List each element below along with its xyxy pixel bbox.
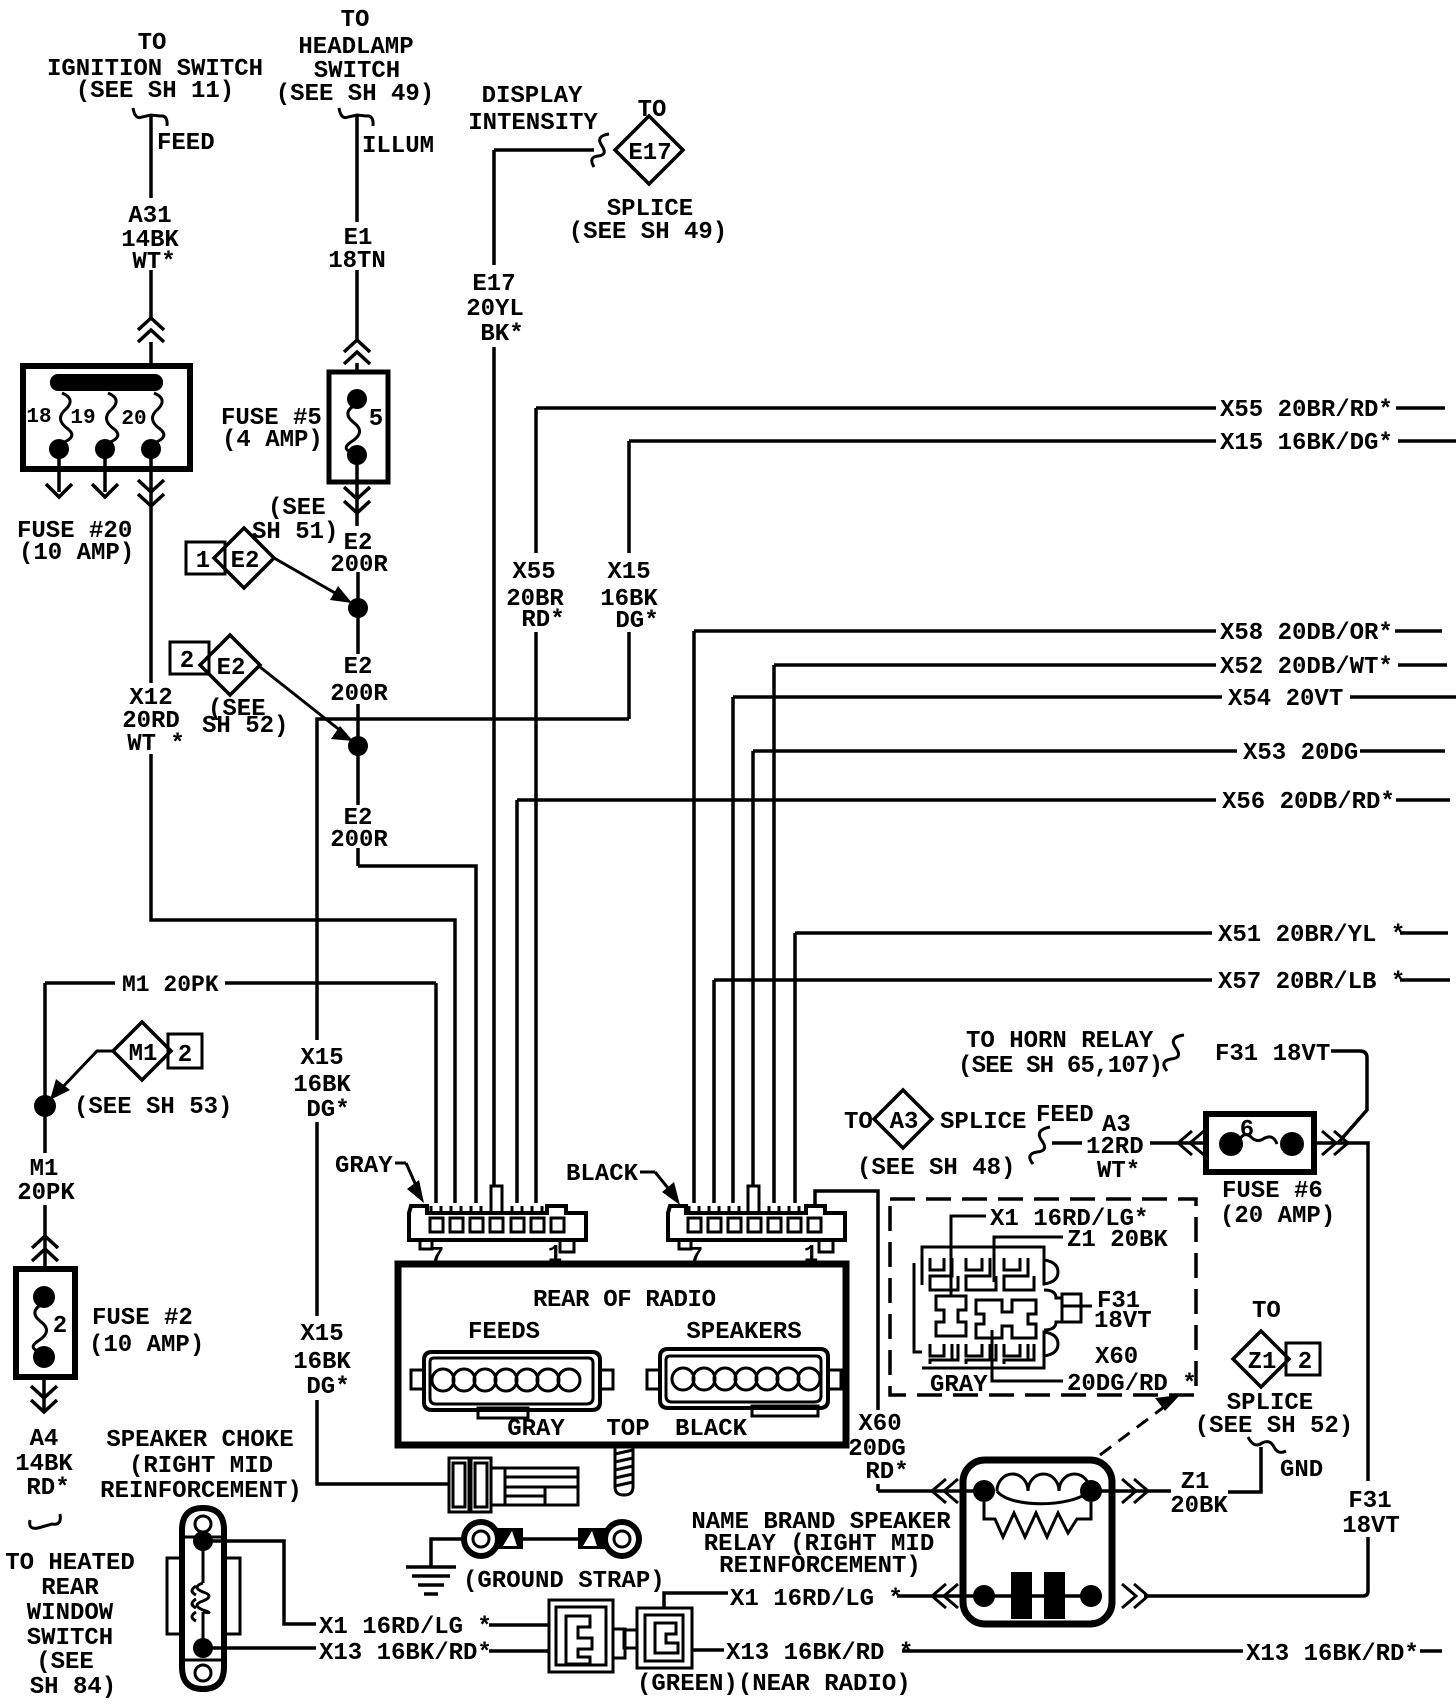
node X15 16BK DG* stack label <box>600 559 658 635</box>
connector black feet <box>679 1240 833 1252</box>
node splice symbol E17 diamond <box>615 97 683 184</box>
node Z1 20BK wire label <box>1170 1469 1228 1520</box>
wire X13 end dash <box>1420 1649 1442 1653</box>
wire X12 vertical and elbow to gray pin6 <box>151 754 455 1203</box>
wire X60 lead in box <box>992 1330 1063 1381</box>
wire X13 long horizontal <box>902 1649 1243 1653</box>
wire X60 into relay <box>878 1489 984 1493</box>
svg-text:TO: TO <box>844 1109 873 1136</box>
svg-text:E2: E2 <box>217 655 246 682</box>
svg-text:X57 20BR/LB *: X57 20BR/LB * <box>1218 969 1405 996</box>
svg-text:2: 2 <box>178 1042 192 1069</box>
svg-text:X52 20DB/WT*: X52 20DB/WT* <box>1220 654 1393 681</box>
wire choke bottom to X13 label <box>203 1646 316 1650</box>
node choke top terminal dot <box>193 1531 213 1551</box>
svg-text:20DG/RD *: 20DG/RD * <box>1067 1371 1197 1398</box>
svg-text:HEADLAMP: HEADLAMP <box>298 34 413 61</box>
svg-text:X60: X60 <box>1095 1344 1138 1371</box>
component mounting bolt <box>615 1448 633 1495</box>
wire black pin1 up elbow to X60 drop <box>815 1191 878 1491</box>
svg-text:X53 20DG: X53 20DG <box>1243 740 1358 767</box>
node: TO IGNITION SWITCH label <box>47 30 263 105</box>
wire arrow from E2 diamond1 to junction 1 <box>274 558 342 597</box>
svg-text:REAR OF RADIO: REAR OF RADIO <box>533 1287 716 1314</box>
svg-text:18VT: 18VT <box>1342 1513 1400 1540</box>
wire E2 elbow to gray pin5 <box>358 866 476 1203</box>
svg-text:RD*: RD* <box>521 607 564 634</box>
wire X1 lead in box <box>951 1216 986 1295</box>
node splice ref box M1-2 <box>168 1034 202 1069</box>
svg-text:M1: M1 <box>129 1041 158 1068</box>
wire E2 below fuse5 with down chevrons <box>344 462 370 526</box>
wire F31 from label to fuse6 right <box>1331 1051 1367 1143</box>
svg-text:2: 2 <box>1298 1349 1312 1376</box>
svg-text:Z1 20BK: Z1 20BK <box>1067 1227 1168 1254</box>
svg-text:F31 18VT: F31 18VT <box>1215 1041 1330 1068</box>
pin gray keyed pin4 marker <box>491 1186 502 1213</box>
fuse block bus bar <box>50 374 163 391</box>
connector green plug large <box>549 1600 625 1672</box>
node E17 20YL BK* label <box>466 271 524 348</box>
svg-text:E2: E2 <box>344 654 373 681</box>
svg-text:BK*: BK* <box>480 321 523 348</box>
wire X57 elbow <box>714 980 1450 1203</box>
svg-text:20BK: 20BK <box>1170 1493 1228 1520</box>
svg-text:X15: X15 <box>300 1045 343 1072</box>
svg-text:(SEE: (SEE <box>36 1649 94 1676</box>
svg-text:18: 18 <box>26 406 51 429</box>
wire break chevrons above fuse2 <box>32 1236 58 1261</box>
fuse block #20 outline <box>23 366 190 469</box>
svg-text:2: 2 <box>180 648 194 675</box>
svg-text:(SEE SH 65,107): (SEE SH 65,107) <box>958 1053 1163 1080</box>
fuse F6 outline <box>1206 1114 1314 1172</box>
connector GRAY radio plug body <box>409 1206 586 1240</box>
svg-text:WT*: WT* <box>1097 1158 1140 1185</box>
node X60 20DG RD* stack label <box>848 1411 908 1486</box>
wire Z1 lead in box <box>994 1237 1063 1282</box>
svg-text:M1: M1 <box>30 1156 59 1183</box>
node relay contact right dot <box>1080 1585 1102 1607</box>
svg-text:Z1: Z1 <box>1181 1469 1210 1496</box>
svg-text:16BK: 16BK <box>293 1349 351 1376</box>
node junction dot 19 <box>95 439 115 459</box>
wire X58 elbow <box>694 631 1442 1203</box>
wire X56 elbow <box>517 800 1450 1203</box>
node A4 14BK RD* label <box>15 1426 73 1502</box>
svg-text:14BK: 14BK <box>15 1451 73 1478</box>
svg-text:GRAY: GRAY <box>335 1153 393 1180</box>
connector FEEDS side tabs <box>411 1370 424 1389</box>
component relay resistor <box>984 1502 1091 1537</box>
svg-text:BLACK: BLACK <box>675 1416 748 1443</box>
node relay right chevrons top <box>1122 1479 1148 1503</box>
node junction dot 20 <box>141 439 161 459</box>
node relay left chevrons top <box>932 1479 958 1503</box>
svg-text:SPEAKER CHOKE: SPEAKER CHOKE <box>106 1427 293 1454</box>
component relay contact bars <box>1011 1572 1032 1619</box>
node X55 20BR RD* stack label <box>506 559 564 634</box>
svg-text:(SEE SH 49): (SEE SH 49) <box>276 81 434 108</box>
wire fuse link 20 <box>152 393 163 443</box>
fuse F5 outline <box>329 372 388 482</box>
connector FEEDS socket outline <box>424 1352 600 1410</box>
svg-text:X15: X15 <box>607 559 650 586</box>
svg-text:INTENSITY: INTENSITY <box>468 110 598 137</box>
svg-text:DG*: DG* <box>306 1374 349 1401</box>
node splice symbol E2 diamond 1 <box>214 528 274 588</box>
connector speaker choke plug at radio <box>449 1458 578 1512</box>
node splice symbol Z1 diamond <box>1233 1331 1289 1387</box>
connector gray pin top marks <box>431 1206 542 1213</box>
svg-text:(SEE: (SEE <box>268 495 326 522</box>
node splice symbol M1 diamond <box>113 1022 171 1080</box>
svg-text:GRAY: GRAY <box>930 1372 988 1399</box>
svg-text:X13 16BK/RD*: X13 16BK/RD* <box>319 1640 492 1667</box>
wire M1 vertical left <box>43 983 47 1269</box>
node X15 stack label lower <box>293 1321 351 1401</box>
node fuse6 right dot <box>1280 1132 1304 1156</box>
node horn relay squiggle <box>1164 1035 1184 1071</box>
node A3 feed squiggle <box>1030 1127 1050 1164</box>
svg-text:WINDOW: WINDOW <box>27 1600 114 1627</box>
wire green2 right to X13 label <box>692 1648 724 1652</box>
connector FEEDS bottom tab <box>478 1408 528 1418</box>
wire A4 bottom bracket <box>30 1514 61 1528</box>
svg-text:X15: X15 <box>300 1321 343 1348</box>
svg-text:SWITCH: SWITCH <box>27 1625 113 1652</box>
node FUSE #2 (10 AMP) label <box>89 1305 204 1359</box>
connector green plug small (GREEN)(NEAR RADIO) <box>624 1608 692 1668</box>
wire arrow from M1 diamond to junction <box>58 1051 113 1092</box>
wire X55 down from corner with label gap <box>534 408 538 1203</box>
node squiggle at E17 <box>592 134 609 167</box>
node FUSE #20 (10 AMP) label <box>17 518 134 567</box>
wire X53 elbow <box>753 751 1445 1186</box>
svg-text:REAR: REAR <box>41 1575 99 1602</box>
wire X51 elbow <box>795 933 1448 1203</box>
svg-text:X1 16RD/LG *: X1 16RD/LG * <box>319 1614 492 1641</box>
svg-text:TO HORN RELAY: TO HORN RELAY <box>966 1028 1154 1055</box>
node fuse6 left chevrons <box>1178 1131 1204 1155</box>
component ground strap <box>464 1522 639 1556</box>
wire X1 label to green connector <box>489 1623 549 1627</box>
node splice ref box Z1-2 <box>1286 1343 1320 1376</box>
wire A31 feed vertical <box>149 115 153 367</box>
wire fuse6 element <box>1237 1135 1277 1144</box>
svg-text:FEEDS: FEEDS <box>468 1319 540 1346</box>
node X60 20DG/RD * label in box <box>1067 1344 1197 1398</box>
svg-text:1: 1 <box>196 548 210 575</box>
wire relay contact row <box>984 1594 1091 1598</box>
wire ground strap to ground <box>431 1539 464 1567</box>
node A3 12RD WT* label <box>1086 1112 1144 1185</box>
svg-text:20PK: 20PK <box>17 1180 75 1207</box>
svg-text:20YL: 20YL <box>466 296 524 323</box>
node M1 junction dot <box>34 1095 56 1117</box>
node relay coil left dot <box>973 1480 995 1502</box>
wire break chevrons A31 <box>138 318 164 342</box>
node fuse6 right chevrons <box>1322 1131 1348 1155</box>
svg-text:RD*: RD* <box>26 1475 69 1502</box>
wire X54 elbow <box>733 697 1456 1203</box>
svg-text:(GROUND STRAP): (GROUND STRAP) <box>463 1568 665 1595</box>
connector FEEDS inner <box>430 1358 593 1404</box>
connector SPEAKERS side tabs <box>647 1370 660 1389</box>
wire display intensity horizontal to E17 splice <box>494 148 594 152</box>
wire X15 horizontal to right <box>629 439 1456 443</box>
wire A31 top bracket <box>133 108 167 126</box>
wire squiggle to 12RD <box>1052 1141 1082 1145</box>
wire dashed pointer from box to relay <box>1100 1401 1172 1455</box>
wire X1 right label to relay <box>897 1594 984 1598</box>
connector FEEDS pins row <box>432 1369 580 1391</box>
svg-text:(GREEN)(NEAR RADIO): (GREEN)(NEAR RADIO) <box>637 1671 911 1698</box>
node fuse5 bottom dot <box>347 445 367 465</box>
svg-text:20: 20 <box>121 408 146 431</box>
svg-text:FEED: FEED <box>1036 1102 1094 1129</box>
node FUSE #6 (20 AMP) label <box>1220 1178 1335 1230</box>
wire E1 illum vertical <box>355 115 359 372</box>
svg-text:X1 16RD/LG *: X1 16RD/LG * <box>730 1586 903 1613</box>
connector SPEAKERS pins row <box>672 1368 820 1390</box>
svg-text:FUSE #2: FUSE #2 <box>92 1305 193 1332</box>
wire F31 lead in box <box>1062 1305 1092 1308</box>
svg-text:TO: TO <box>138 30 167 57</box>
svg-text:16BK: 16BK <box>293 1072 351 1099</box>
svg-text:A3: A3 <box>890 1109 919 1136</box>
svg-text:X15 16BK/DG*: X15 16BK/DG* <box>1220 430 1393 457</box>
node TO HEATED REAR WINDOW SWITCH label <box>5 1550 135 1701</box>
wire X52 elbow <box>774 665 1447 1203</box>
node GND squiggle <box>1248 1437 1286 1452</box>
svg-text:TO: TO <box>341 7 370 34</box>
svg-text:TO HEATED: TO HEATED <box>5 1550 135 1577</box>
node junction dot 18 <box>49 439 69 459</box>
connector black pin cavities <box>688 1218 821 1232</box>
wire X55 horizontal to right <box>536 406 1445 410</box>
wire fuse6 right lead <box>1144 1143 1368 1596</box>
component choke connector maze in dashed box <box>914 1247 1081 1368</box>
svg-text:X13 16BK/RD*: X13 16BK/RD* <box>1246 1641 1419 1668</box>
svg-text:X55 20BR/RD*: X55 20BR/RD* <box>1220 397 1393 424</box>
svg-text:(SEE SH 48): (SEE SH 48) <box>857 1155 1015 1182</box>
svg-text:M1 20PK: M1 20PK <box>122 972 219 998</box>
svg-text:SH 51): SH 51) <box>252 519 338 546</box>
relay NAME BRAND SPEAKER RELAY outline <box>963 1460 1112 1624</box>
node X12 20RD WT* label <box>122 685 185 758</box>
svg-text:SPLICE: SPLICE <box>940 1109 1026 1136</box>
connector gray pin cavities <box>430 1218 564 1232</box>
node relay coil right dot <box>1080 1480 1102 1502</box>
node fuse6 left dot <box>1219 1132 1243 1156</box>
svg-text:WT*: WT* <box>132 249 175 276</box>
wire relay coil out to Z1 label <box>1091 1489 1171 1493</box>
svg-text:(10 AMP): (10 AMP) <box>19 540 134 567</box>
node M1 20PK stack label <box>17 1156 75 1207</box>
node splice ref box 2 <box>170 642 209 675</box>
svg-text:FEED: FEED <box>157 130 215 157</box>
node E2 junction dot 2 <box>348 736 368 756</box>
svg-text:X55: X55 <box>512 559 555 586</box>
node E2 200R label 1 <box>330 530 388 579</box>
svg-text:TO: TO <box>638 97 667 124</box>
svg-text:WT *: WT * <box>127 731 185 758</box>
node E1 18TN label <box>328 225 386 275</box>
svg-text:X13 16BK/RD *: X13 16BK/RD * <box>726 1640 913 1667</box>
svg-text:SH 84): SH 84) <box>30 1674 116 1701</box>
wire 12RD to fuse6 <box>1150 1141 1204 1145</box>
svg-text:X51 20BR/YL *: X51 20BR/YL * <box>1218 922 1405 949</box>
node fuse2 bottom dot <box>33 1346 55 1368</box>
node NAME BRAND SPEAKER RELAY label <box>691 1509 951 1580</box>
svg-text:TO: TO <box>1252 1298 1281 1325</box>
svg-text:X60: X60 <box>858 1411 901 1438</box>
pin black keyed pin4 marker <box>748 1186 759 1213</box>
connector BLACK radio plug body <box>668 1206 845 1240</box>
svg-text:18VT: 18VT <box>1094 1308 1152 1335</box>
wire arrow from E2 diamond2 to junction 2 <box>260 667 346 735</box>
svg-text:(20 AMP): (20 AMP) <box>1220 1203 1335 1230</box>
wire fuse link 19 <box>106 393 117 443</box>
wire fuse link 18 <box>60 393 71 443</box>
node fuse5 top dot <box>347 389 367 409</box>
wire green2 top to X1 right label <box>664 1593 728 1608</box>
wire E1 top bracket <box>339 108 373 126</box>
wire black callout dash and arrow <box>640 1172 672 1193</box>
svg-text:DG*: DG* <box>306 1097 349 1124</box>
svg-text:(4 AMP): (4 AMP) <box>222 427 323 454</box>
node E2 junction dot 1 <box>348 598 368 618</box>
svg-text:E17: E17 <box>628 140 671 167</box>
svg-text:(SEE SH 52): (SEE SH 52) <box>1195 1413 1353 1440</box>
svg-text:RD*: RD* <box>865 1459 908 1486</box>
connector SPEAKERS inner <box>666 1356 821 1402</box>
node splice symbol A3 diamond <box>874 1090 932 1148</box>
wire E2 vertical between labels and dots <box>356 572 360 866</box>
wire fuse2 element <box>33 1303 46 1353</box>
svg-text:BLACK: BLACK <box>566 1161 639 1188</box>
node splice ref box 1 <box>186 542 225 575</box>
svg-text:E17: E17 <box>472 271 515 298</box>
node F31 18VT stack label right <box>1342 1488 1400 1540</box>
svg-text:(10 AMP): (10 AMP) <box>89 1332 204 1359</box>
wire E17 20YL BK* vertical <box>492 150 496 1186</box>
svg-text:TOP: TOP <box>606 1416 649 1443</box>
wire X13 label to green connector <box>489 1649 549 1653</box>
wire gray callout dash and arrow <box>395 1163 418 1190</box>
svg-text:REINFORCEMENT): REINFORCEMENT) <box>100 1478 302 1505</box>
svg-text:(SEE SH 53): (SEE SH 53) <box>74 1094 232 1121</box>
component relay coil <box>997 1474 1090 1491</box>
node X15 stack label upper <box>293 1045 351 1124</box>
node (SEE SH 51) label <box>252 495 338 546</box>
svg-text:DISPLAY: DISPLAY <box>482 83 583 110</box>
node fuse2 top dot <box>33 1286 55 1308</box>
node DISPLAY INTENSITY label <box>468 83 598 137</box>
wire choke top to X1 label <box>203 1541 316 1624</box>
svg-text:E2: E2 <box>231 548 260 575</box>
svg-text:X54 20VT: X54 20VT <box>1228 686 1343 713</box>
node A31 14BK WT* label <box>121 203 179 276</box>
node SPLICE (SEE SH 49) label <box>569 196 727 246</box>
node FUSE #5 (4 AMP) label <box>221 405 323 454</box>
svg-text:12RD: 12RD <box>1086 1134 1144 1161</box>
connector gray feet <box>420 1240 574 1252</box>
svg-text:SH 52): SH 52) <box>202 713 288 740</box>
fuse F2 outline <box>16 1269 75 1377</box>
wire X15 down from corner with label gap <box>627 441 631 719</box>
ground symbol <box>406 1567 456 1594</box>
svg-text:18TN: 18TN <box>328 248 386 275</box>
svg-text:5: 5 <box>369 406 383 433</box>
svg-text:FUSE #6: FUSE #6 <box>1222 1178 1323 1205</box>
node splice symbol E2 diamond 2 <box>200 635 260 695</box>
svg-text:DG*: DG* <box>615 608 658 635</box>
node: TO HEADLAMP SWITCH label <box>276 7 434 108</box>
node F31 18VT label in box <box>1094 1288 1152 1335</box>
wire X15 left leg down to speaker choke <box>317 719 629 1484</box>
svg-text:200R: 200R <box>330 681 388 708</box>
svg-text:F31: F31 <box>1348 1488 1391 1515</box>
svg-text:19: 19 <box>70 407 95 430</box>
connector SPEAKERS bottom tab <box>752 1406 818 1416</box>
wire arrow down from 18 <box>46 455 72 497</box>
node E2 200R label 3 <box>330 805 388 854</box>
wire break chevrons E1 <box>344 340 370 364</box>
svg-text:(SEE SH 11): (SEE SH 11) <box>76 78 234 105</box>
wire below fuse2 with down chevrons <box>31 1377 57 1412</box>
node SPEAKER CHOKE label <box>100 1427 302 1505</box>
svg-text:2: 2 <box>53 1313 67 1340</box>
connector SPEAKERS socket outline <box>660 1349 828 1408</box>
node relay right chevrons bottom <box>1122 1584 1148 1608</box>
node E2 200R label 2 <box>330 654 388 708</box>
svg-text:(RIGHT MID: (RIGHT MID <box>129 1453 273 1480</box>
component REAR OF RADIO box <box>398 1264 846 1445</box>
wire from 20 with break chevrons <box>138 455 164 683</box>
svg-text:(SEE SH 49): (SEE SH 49) <box>569 219 727 246</box>
node relay contact left dot <box>973 1585 995 1607</box>
connector black pin top marks <box>689 1206 799 1213</box>
component speaker choke body <box>167 1508 240 1689</box>
svg-text:A31: A31 <box>128 203 171 230</box>
wire GND lead <box>1228 1447 1261 1492</box>
svg-text:GRAY: GRAY <box>507 1416 565 1443</box>
svg-text:A4: A4 <box>30 1426 59 1453</box>
node relay left chevrons bottom <box>932 1584 958 1608</box>
wire fuse5 element <box>346 404 359 454</box>
wire M1 20PK horizontal <box>45 983 436 1203</box>
svg-text:200R: 200R <box>330 827 388 854</box>
svg-text:X58 20DB/OR*: X58 20DB/OR* <box>1220 620 1393 647</box>
svg-text:SPEAKERS: SPEAKERS <box>686 1319 801 1346</box>
component speaker choke dashed box <box>890 1199 1196 1395</box>
svg-text:ILLUM: ILLUM <box>362 133 434 160</box>
svg-text:Z1: Z1 <box>1248 1349 1277 1376</box>
svg-text:REINFORCEMENT): REINFORCEMENT) <box>719 1553 921 1580</box>
wire arrow down from 19 <box>92 455 118 497</box>
svg-text:X56 20DB/RD*: X56 20DB/RD* <box>1222 789 1395 816</box>
node (SEE SH 52) label left <box>202 696 288 740</box>
svg-text:GND: GND <box>1280 1457 1323 1484</box>
node choke bottom terminal dot <box>193 1638 213 1658</box>
